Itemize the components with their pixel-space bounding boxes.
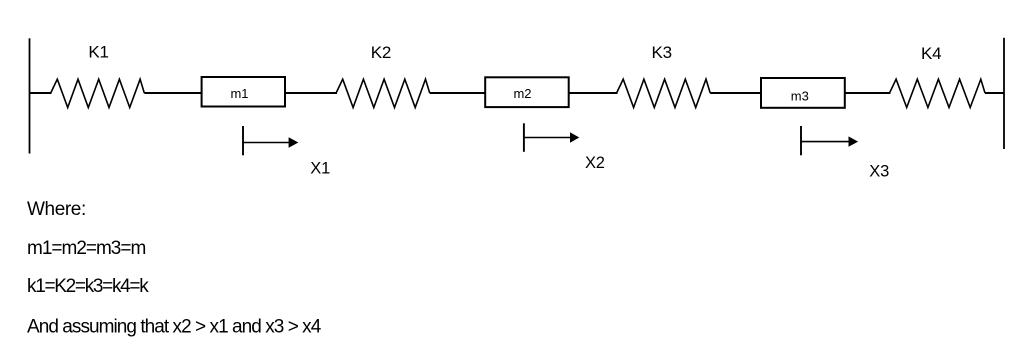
spring K4 [890,79,986,107]
displacement arrow X3: shaft [801,141,849,143]
wire: spring K3 to mass m3 [710,92,761,94]
spring K1 [51,79,145,107]
wire: mass m3 to spring K4 [845,92,891,94]
svg-text:K3: K3 [651,43,671,62]
displacement arrow X2: reference tick [523,123,525,152]
wire: spring K2 to mass m2 [430,92,486,94]
right wall [1003,38,1005,149]
wire: left wall to spring K1 [30,92,52,94]
displacement arrow X2: head [570,132,579,142]
displacement arrow X1: head [289,137,299,147]
svg-text:m2: m2 [513,86,531,101]
mass m3 box [761,78,845,108]
svg-text:K2: K2 [371,43,391,62]
wire: mass m2 to spring K3 [569,92,618,94]
spring K2 [336,79,430,107]
svg-text:m1=m2=m3=m: m1=m2=m3=m [27,238,145,259]
svg-text:k1=K2=k3=k4=k: k1=K2=k3=k4=k [27,276,149,297]
wire: spring K1 to mass m1 [144,92,201,94]
svg-text:Where:: Where: [27,199,86,220]
svg-text:m1: m1 [230,86,248,101]
displacement arrow X2: shaft [524,137,571,139]
spring K3 [617,79,711,107]
svg-text:X1: X1 [310,160,330,178]
svg-text:And assuming that x2 > x1 and: And assuming that x2 > x1 and x3 > x4 [27,316,322,337]
left wall [29,38,31,153]
svg-text:K1: K1 [88,43,108,62]
svg-text:X2: X2 [585,154,605,172]
displacement arrow X3: head [849,136,859,146]
displacement arrow X1: shaft [243,142,289,144]
displacement arrow X3: reference tick [800,126,802,155]
svg-text:X3: X3 [869,163,889,181]
wire: spring K4 to right wall [985,92,1004,94]
wire: mass m1 to spring K2 [285,92,337,94]
mass m2 box [485,77,569,107]
displacement arrow X1: reference tick [242,126,244,155]
mass m1 box [202,77,285,107]
svg-text:K4: K4 [921,44,941,63]
svg-text:m3: m3 [791,88,809,103]
